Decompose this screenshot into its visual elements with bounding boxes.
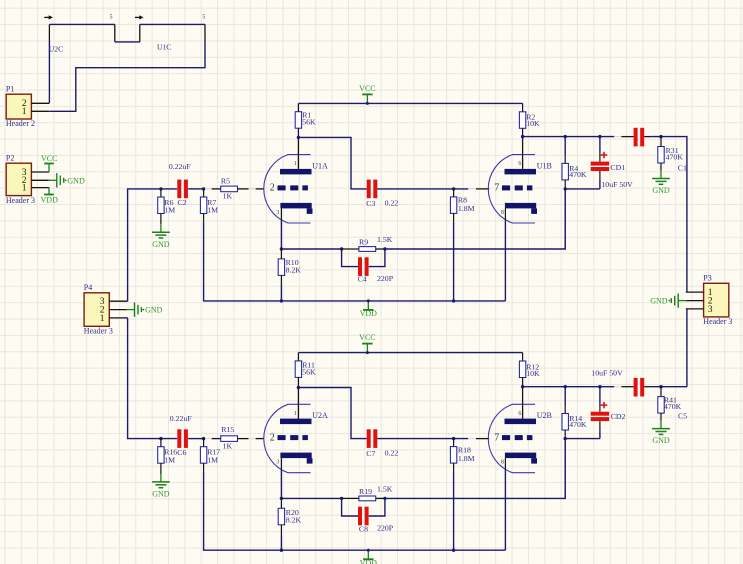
- svg-text:U2C: U2C: [49, 45, 63, 54]
- svg-text:CD1: CD1: [610, 163, 625, 172]
- svg-text:1: 1: [100, 313, 105, 324]
- svg-text:C8: C8: [359, 524, 368, 533]
- svg-text:1.5K: 1.5K: [377, 485, 393, 494]
- svg-text:GND: GND: [145, 306, 163, 315]
- svg-text:0.22: 0.22: [385, 448, 399, 457]
- svg-text:5: 5: [110, 15, 113, 21]
- svg-text:GND: GND: [67, 176, 85, 185]
- svg-text:1: 1: [294, 161, 297, 167]
- svg-text:C7: C7: [366, 449, 375, 458]
- svg-text:470K: 470K: [569, 420, 587, 429]
- svg-text:C1: C1: [678, 163, 687, 172]
- svg-text:1.8M: 1.8M: [458, 454, 475, 463]
- svg-text:P1: P1: [6, 85, 14, 94]
- svg-text:CD2: CD2: [611, 412, 626, 421]
- svg-text:U1A: U1A: [312, 161, 328, 170]
- svg-text:0.22uF: 0.22uF: [170, 414, 193, 423]
- svg-text:10K: 10K: [526, 369, 540, 378]
- svg-text:P2: P2: [6, 154, 14, 163]
- svg-text:3: 3: [276, 210, 279, 216]
- svg-text:GND: GND: [152, 490, 170, 499]
- svg-text:Header 3: Header 3: [6, 196, 35, 205]
- svg-text:220P: 220P: [377, 274, 394, 283]
- svg-text:1M: 1M: [207, 456, 218, 465]
- svg-text:U1B: U1B: [537, 161, 552, 170]
- svg-text:VCC: VCC: [41, 154, 57, 163]
- svg-text:C4: C4: [358, 275, 367, 284]
- svg-text:C5: C5: [678, 412, 687, 421]
- svg-text:1M: 1M: [164, 456, 175, 465]
- svg-text:1.8M: 1.8M: [458, 204, 475, 213]
- svg-text:VCC: VCC: [359, 333, 375, 342]
- svg-text:10uF 50V: 10uF 50V: [591, 369, 623, 378]
- svg-text:Header 3: Header 3: [84, 327, 113, 336]
- svg-text:Header 2: Header 2: [6, 119, 35, 128]
- svg-text:56K: 56K: [302, 117, 316, 126]
- svg-text:7: 7: [494, 183, 499, 194]
- svg-text:5: 5: [202, 15, 205, 21]
- svg-text:1M: 1M: [164, 206, 175, 215]
- svg-text:470K: 470K: [666, 152, 684, 161]
- svg-text:0.22uF: 0.22uF: [169, 162, 192, 171]
- svg-text:2: 2: [270, 183, 275, 194]
- svg-text:8: 8: [501, 460, 504, 466]
- svg-text:8.2K: 8.2K: [286, 515, 302, 524]
- svg-text:1K: 1K: [223, 192, 233, 201]
- svg-text:1M: 1M: [207, 206, 218, 215]
- svg-text:GND: GND: [650, 297, 668, 306]
- svg-text:P4: P4: [84, 283, 92, 292]
- svg-text:1: 1: [294, 411, 297, 417]
- svg-text:GND: GND: [152, 240, 170, 249]
- svg-text:6: 6: [518, 161, 521, 167]
- svg-text:3: 3: [276, 460, 279, 466]
- svg-text:1: 1: [22, 183, 27, 194]
- svg-text:C3: C3: [366, 199, 375, 208]
- svg-text:0.22: 0.22: [385, 198, 399, 207]
- svg-text:56K: 56K: [302, 367, 316, 376]
- svg-text:1K: 1K: [223, 442, 233, 451]
- svg-text:8: 8: [501, 210, 504, 216]
- svg-text:1.5K: 1.5K: [377, 235, 393, 244]
- svg-text:P3: P3: [703, 274, 711, 283]
- svg-text:6: 6: [518, 411, 521, 417]
- svg-text:GND: GND: [652, 186, 670, 195]
- svg-text:R19: R19: [359, 487, 372, 496]
- svg-text:VDD: VDD: [41, 195, 59, 204]
- svg-text:R5: R5: [221, 177, 230, 186]
- svg-text:10K: 10K: [526, 119, 540, 128]
- svg-text:7: 7: [494, 432, 499, 443]
- svg-text:VDD: VDD: [360, 559, 378, 564]
- svg-text:10uF 50V: 10uF 50V: [601, 180, 633, 189]
- svg-text:R15: R15: [221, 425, 234, 434]
- svg-text:C2: C2: [178, 198, 187, 207]
- svg-text:2: 2: [270, 432, 275, 443]
- svg-text:U2B: U2B: [537, 411, 552, 420]
- svg-text:U2A: U2A: [312, 411, 328, 420]
- svg-text:VCC: VCC: [359, 84, 375, 93]
- svg-text:3: 3: [708, 304, 713, 315]
- svg-text:Header 3: Header 3: [703, 317, 732, 326]
- svg-text:470K: 470K: [664, 402, 682, 411]
- svg-text:VDD: VDD: [360, 309, 378, 318]
- svg-text:C6: C6: [177, 448, 186, 457]
- svg-text:8.2K: 8.2K: [286, 265, 302, 274]
- svg-text:470K: 470K: [569, 170, 587, 179]
- svg-text:220P: 220P: [377, 524, 394, 533]
- svg-text:1: 1: [22, 106, 27, 117]
- svg-text:GND: GND: [652, 436, 670, 445]
- svg-text:R9: R9: [359, 238, 368, 247]
- svg-text:U1C: U1C: [157, 43, 171, 52]
